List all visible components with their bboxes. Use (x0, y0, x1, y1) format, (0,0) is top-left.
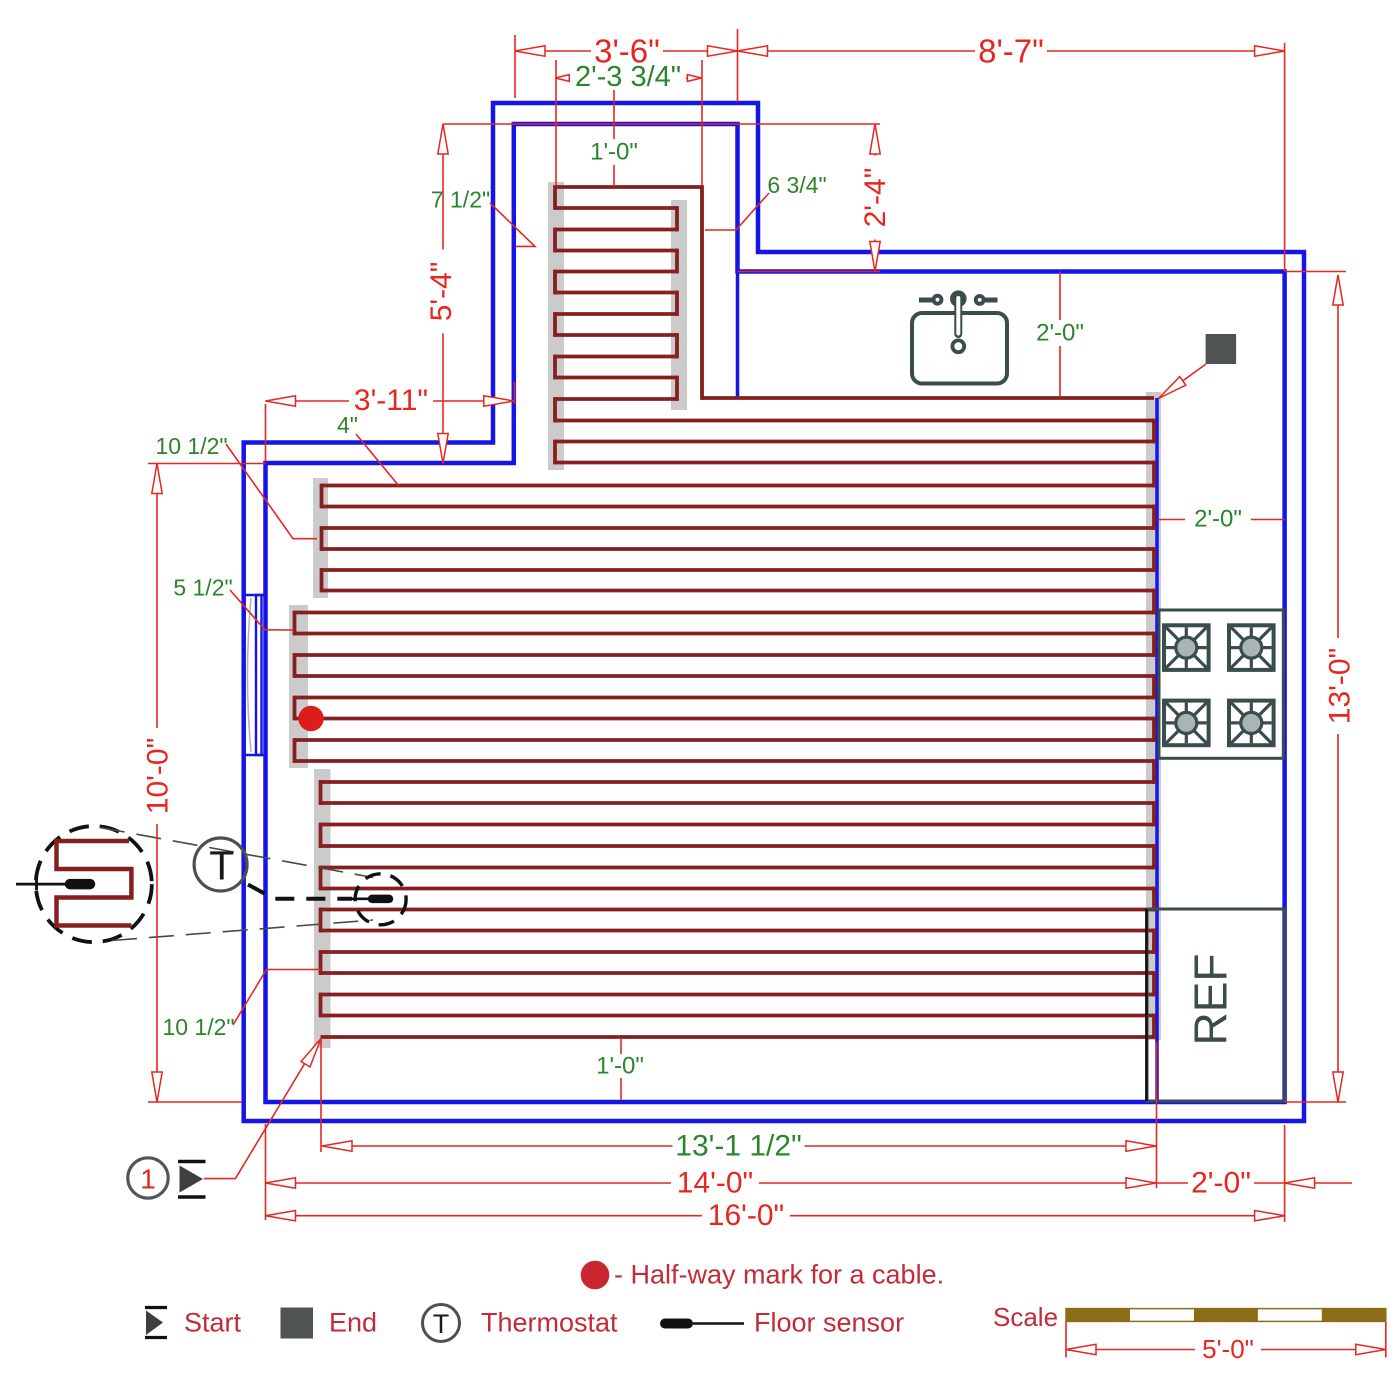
svg-text:10'-0": 10'-0" (142, 738, 175, 814)
svg-text:2'-0": 2'-0" (1194, 506, 1242, 533)
svg-text:2'-0": 2'-0" (1036, 320, 1084, 347)
svg-text:2'-4": 2'-4" (859, 168, 892, 228)
svg-text:16'-0": 16'-0" (708, 1199, 784, 1232)
svg-text:13'-0": 13'-0" (1324, 648, 1357, 724)
svg-text:3'-11": 3'-11" (354, 384, 428, 417)
svg-text:4": 4" (337, 412, 358, 438)
svg-text:T: T (209, 843, 234, 889)
svg-text:10 1/2": 10 1/2" (155, 433, 227, 459)
svg-text:Thermostat: Thermostat (481, 1308, 618, 1338)
svg-text:2'-0": 2'-0" (1191, 1167, 1251, 1200)
svg-text:2'-3 3/4": 2'-3 3/4" (575, 61, 681, 93)
svg-text:- Half-way mark for a cable.: - Half-way mark for a cable. (614, 1260, 944, 1290)
svg-text:5 1/2": 5 1/2" (173, 575, 232, 601)
svg-text:5'-0": 5'-0" (1202, 1334, 1254, 1364)
svg-text:Floor sensor: Floor sensor (754, 1308, 904, 1338)
svg-text:T: T (433, 1309, 450, 1339)
svg-text:1'-0": 1'-0" (590, 139, 638, 166)
svg-text:1: 1 (140, 1164, 156, 1195)
svg-text:REF: REF (1185, 954, 1237, 1046)
svg-text:End: End (329, 1308, 377, 1338)
svg-text:13'-1 1/2": 13'-1 1/2" (675, 1130, 801, 1163)
svg-text:5'-4": 5'-4" (425, 262, 458, 322)
svg-text:1'-0": 1'-0" (596, 1053, 644, 1080)
svg-text:6 3/4": 6 3/4" (767, 172, 826, 198)
svg-text:Start: Start (184, 1308, 242, 1338)
svg-text:8'-7": 8'-7" (978, 33, 1044, 70)
svg-text:Scale: Scale (993, 1302, 1058, 1332)
svg-text:7 1/2": 7 1/2" (431, 187, 490, 213)
svg-text:10 1/2": 10 1/2" (162, 1014, 234, 1040)
svg-text:14'-0": 14'-0" (677, 1167, 753, 1200)
